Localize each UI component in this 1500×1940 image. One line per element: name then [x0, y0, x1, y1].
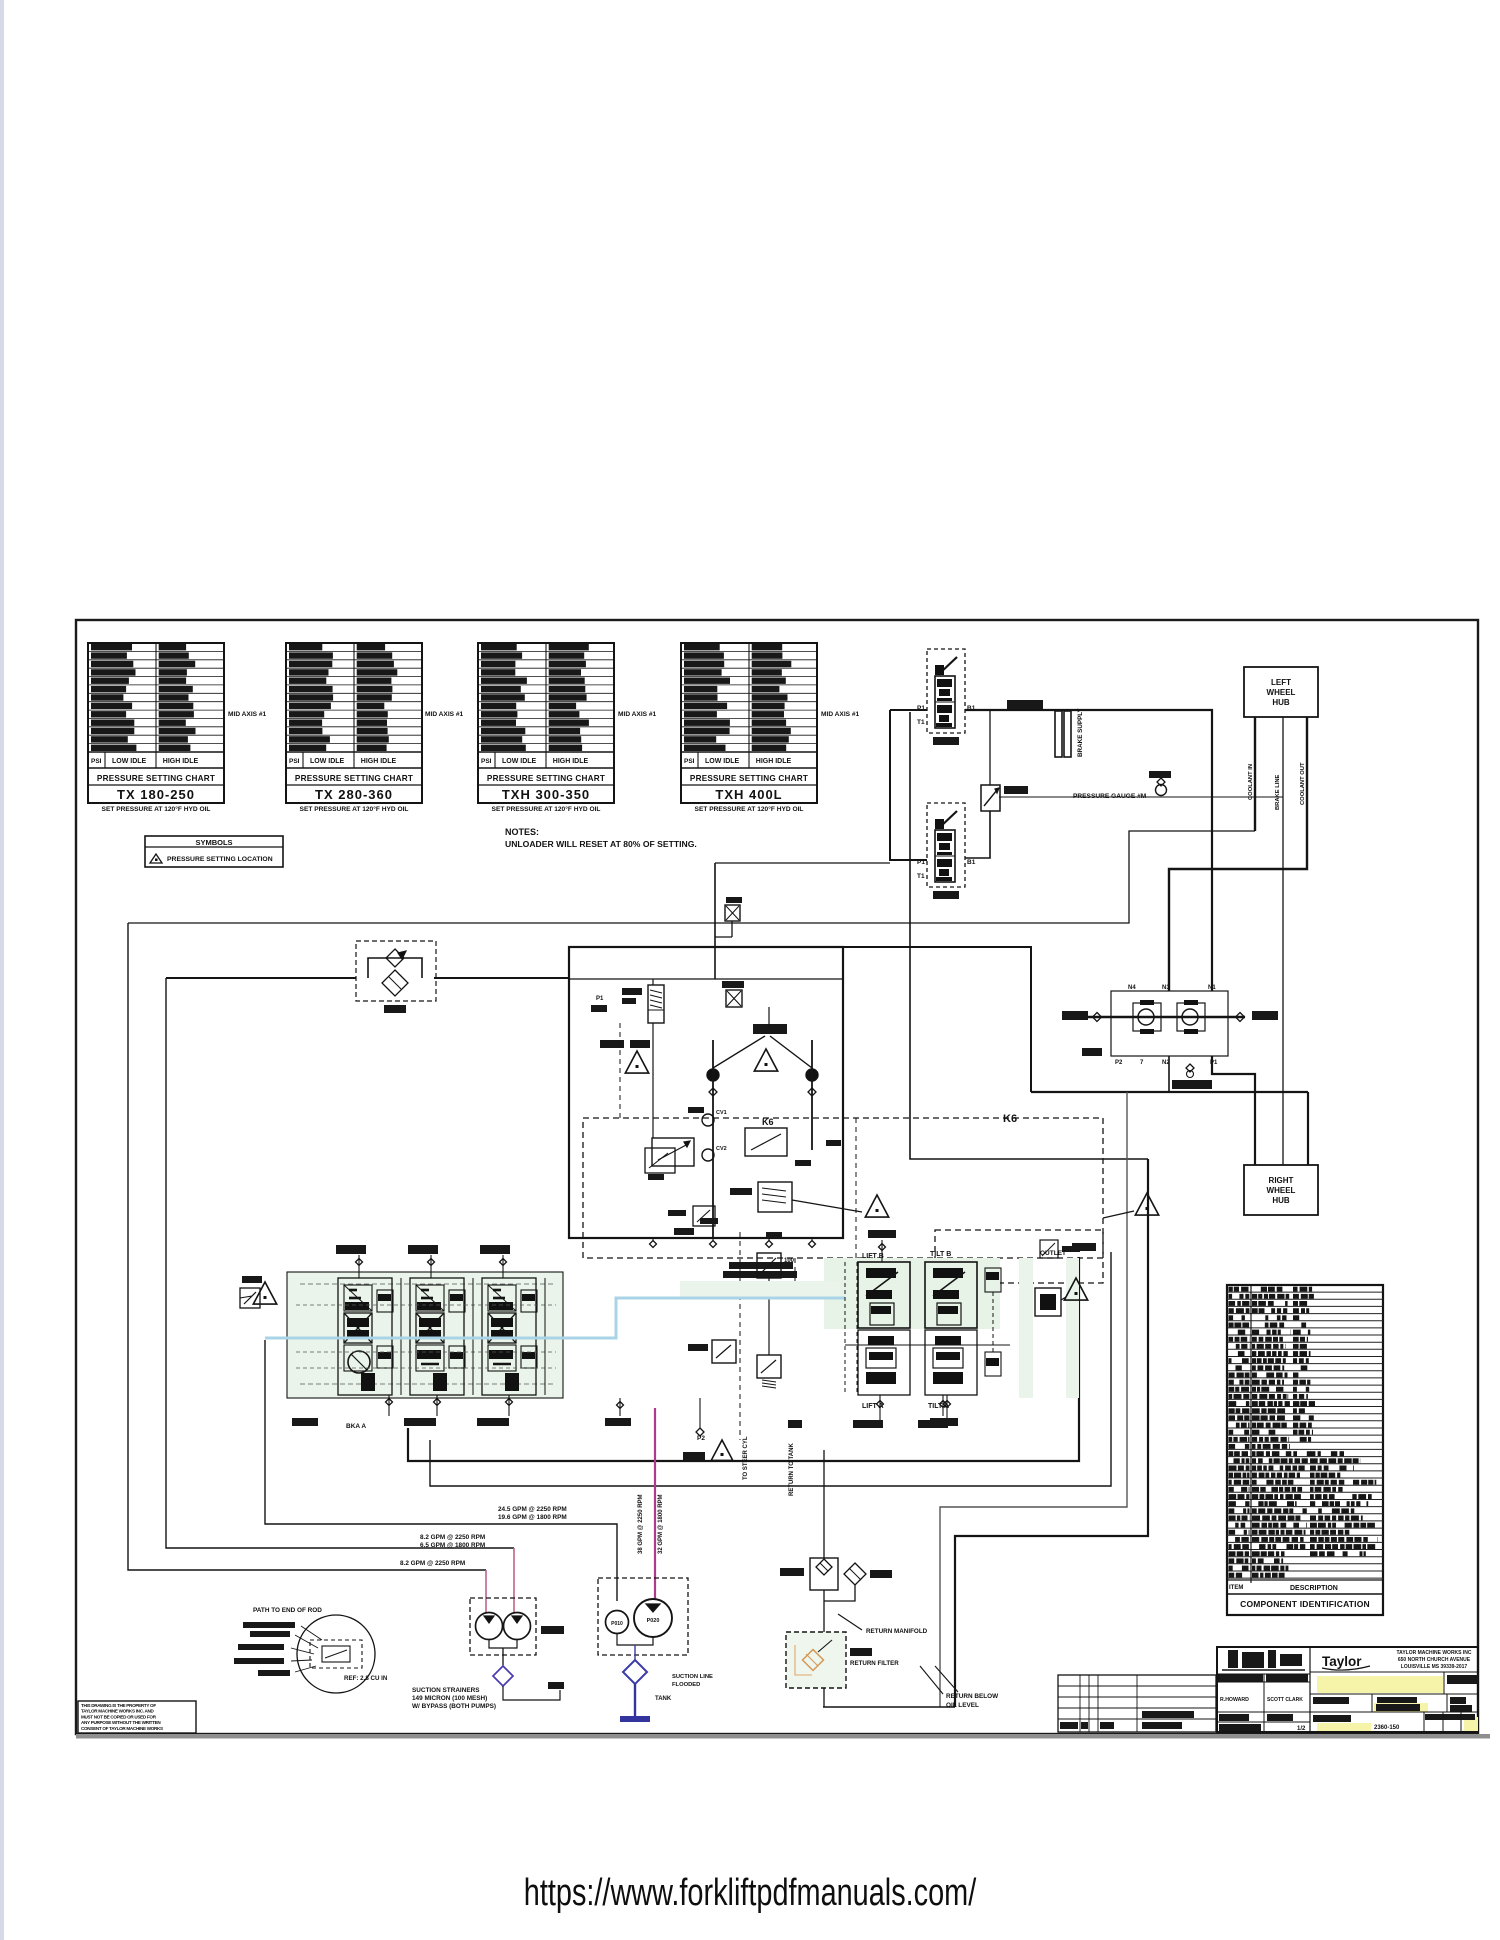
pressure setting chart TXH 300-350 frame	[478, 643, 614, 803]
bottom scan bar	[76, 1734, 1490, 1739]
svg-text:T1: T1	[917, 719, 925, 726]
svg-text:8.2 GPM @ 2250 RPM: 8.2 GPM @ 2250 RPM	[400, 1560, 465, 1567]
svg-text:LOW IDLE: LOW IDLE	[310, 758, 345, 765]
svg-text:B1: B1	[967, 859, 976, 866]
svg-text:PRESSURE SETTING CHART: PRESSURE SETTING CHART	[487, 774, 605, 783]
wire right side loop A	[408, 1257, 1079, 1461]
steer pump circle 1	[476, 1613, 503, 1640]
left bank bottom stems	[388, 1395, 390, 1416]
svg-text:PRESSURE SETTING CHART: PRESSURE SETTING CHART	[97, 774, 215, 783]
main pump circle small	[606, 1611, 629, 1634]
svg-text:HIGH IDLE: HIGH IDLE	[553, 758, 589, 765]
wire left hub coolant out	[1169, 717, 1307, 991]
relief spring symbol	[648, 985, 664, 1023]
solenoid valve SV2 lever	[939, 811, 957, 828]
svg-text:ITEM: ITEM	[1229, 1585, 1243, 1591]
svg-text:PSI: PSI	[684, 758, 695, 765]
main pump check diamond blue	[623, 1660, 647, 1684]
svg-text:650 NORTH CHURCH AVENUE: 650 NORTH CHURCH AVENUE	[1398, 1657, 1471, 1663]
flow divider right label	[1252, 1011, 1278, 1020]
svg-text:Taylor: Taylor	[1322, 1654, 1362, 1669]
svg-text:SET PRESSURE AT 120°F HYD OIL: SET PRESSURE AT 120°F HYD OIL	[102, 805, 211, 813]
right bank tint right strip	[1019, 1258, 1033, 1398]
main pump join	[617, 1634, 653, 1645]
solenoid valve SV1 body	[935, 676, 955, 728]
steering orbital circle	[297, 1615, 375, 1693]
left page-edge scan shadow	[0, 0, 4, 1940]
svg-text:1/2: 1/2	[1297, 1726, 1306, 1732]
pump flow tag	[683, 1452, 705, 1460]
mid spring lower-right	[762, 1380, 776, 1382]
svg-text:TO STEER CYL: TO STEER CYL	[743, 1436, 749, 1480]
pilot X box upper	[725, 905, 740, 921]
title block right grid	[1310, 1671, 1478, 1673]
left wheel hub box	[1244, 667, 1318, 717]
flow divider motor 1	[1133, 1003, 1161, 1031]
svg-text:https://www.forkliftpdfmanuals: https://www.forkliftpdfmanuals.com/	[524, 1871, 977, 1914]
manifold port diamonds	[709, 1088, 717, 1096]
svg-text:DESCRIPTION: DESCRIPTION	[1290, 1585, 1338, 1592]
wire pump1 suction pink 1	[485, 1570, 487, 1613]
svg-text:SET PRESSURE AT 120°F HYD OIL: SET PRESSURE AT 120°F HYD OIL	[695, 805, 804, 813]
chart TX 180-250 data rows	[88, 650, 224, 652]
pilot lines dashed box	[583, 1118, 1103, 1258]
component table description header	[1227, 1579, 1383, 1581]
right bank leader to triangle	[1061, 1297, 1066, 1300]
svg-text:WHEEL: WHEEL	[1267, 1186, 1296, 1195]
svg-text:38 GPM @ 2250 RPM: 38 GPM @ 2250 RPM	[638, 1494, 644, 1554]
wire gauge line	[999, 796, 1283, 798]
wire main pump magenta feed	[654, 1408, 656, 1600]
svg-text:MID AXIS #1: MID AXIS #1	[618, 711, 657, 718]
pilot gauge circle right	[806, 1069, 818, 1081]
svg-text:RETURN BELOW: RETURN BELOW	[946, 1693, 999, 1700]
pilot check tag	[1004, 786, 1028, 794]
right pressure-set triangle	[865, 1195, 888, 1217]
valve section LIFT spool stems	[879, 1395, 881, 1420]
return filter element	[803, 1650, 824, 1671]
svg-text:PRESSURE SETTING CHART: PRESSURE SETTING CHART	[690, 774, 808, 783]
inlet filter tag	[384, 1005, 406, 1013]
svg-text:THIS DRAWING IS THE PROPERTY O: THIS DRAWING IS THE PROPERTY OF	[81, 1703, 156, 1708]
svg-text:W/ BYPASS (BOTH PUMPS): W/ BYPASS (BOTH PUMPS)	[412, 1703, 496, 1710]
shuttle triangle	[754, 1049, 777, 1071]
solenoid valve SV1 envelope	[927, 649, 965, 733]
wire manifold top to brake leg	[843, 947, 1031, 1092]
left bank port tag	[242, 1276, 262, 1283]
chart TX 180-250 title rows	[88, 767, 224, 769]
manifold left inner valve	[645, 1148, 675, 1173]
svg-text:SCOTT CLARK: SCOTT CLARK	[1267, 1697, 1303, 1703]
svg-text:SUCTION STRAINERS: SUCTION STRAINERS	[412, 1687, 480, 1694]
chart TXH 300-350 data rows	[478, 650, 614, 652]
title bottom row	[1313, 1715, 1351, 1722]
wire right side loop D	[955, 1159, 1148, 1707]
wire left hub brake line	[1282, 717, 1284, 1165]
right bank inlet tag	[1072, 1243, 1096, 1251]
title block header band	[1218, 1674, 1263, 1682]
left bank inter-section rules	[400, 1278, 402, 1395]
svg-text:BRAKE LINE: BRAKE LINE	[1275, 774, 1281, 810]
flow divider drain tag	[1172, 1080, 1212, 1089]
chart TXH 400L header row	[681, 751, 817, 753]
right bank mid rail	[845, 1344, 1010, 1346]
svg-text:TILT B: TILT B	[930, 1251, 951, 1258]
svg-text:2360-150: 2360-150	[1374, 1725, 1400, 1731]
steer pump circle 2	[504, 1613, 531, 1640]
left valve bank tint	[287, 1272, 563, 1398]
manifold bottom tag	[674, 1228, 694, 1235]
title block main frame	[1217, 1647, 1478, 1732]
manifold inner dashed riser	[855, 1118, 857, 1258]
svg-text:CONSENT OF TAYLOR MACHINE WORK: CONSENT OF TAYLOR MACHINE WORKS	[81, 1726, 163, 1731]
central manifold box	[569, 947, 843, 1238]
pilot gauge circle left	[707, 1069, 719, 1081]
manifold inner top line	[569, 978, 843, 980]
wire main inlet horizontal	[166, 977, 356, 979]
svg-text:SET PRESSURE AT 120°F HYD OIL: SET PRESSURE AT 120°F HYD OIL	[300, 805, 409, 813]
main pump envelope	[598, 1578, 688, 1655]
svg-text:COOLANT OUT: COOLANT OUT	[1300, 762, 1306, 805]
chart TXH 400L data rows	[681, 650, 817, 652]
steer pump drain	[503, 1686, 560, 1700]
svg-text:6.5 GPM @ 1800 RPM: 6.5 GPM @ 1800 RPM	[420, 1542, 485, 1549]
pressure gauge symbol	[1156, 785, 1167, 796]
wire divider P2 drop	[1168, 1056, 1170, 1092]
inlet check valve	[368, 958, 422, 978]
steering leader lines	[301, 1626, 322, 1640]
right bank top stems	[881, 1240, 883, 1262]
steer pump tag	[541, 1626, 564, 1634]
steer pump check diamond blue	[493, 1666, 513, 1686]
brake accumulator component	[1055, 711, 1062, 757]
chart TX 280-360 title rows	[286, 767, 422, 769]
svg-text:100: 100	[784, 1258, 795, 1264]
svg-text:TX 280-360: TX 280-360	[315, 787, 393, 802]
valve section TILT spool	[925, 1262, 977, 1328]
return line small filter	[810, 1558, 838, 1590]
tank symbol	[620, 1716, 650, 1722]
manifold stub wires	[652, 1023, 654, 1138]
left bank outlet label	[605, 1418, 631, 1426]
svg-text:FLOODED: FLOODED	[672, 1682, 700, 1688]
revision table	[1058, 1675, 1216, 1732]
svg-text:HUB: HUB	[1272, 698, 1290, 707]
svg-text:PSI: PSI	[91, 758, 102, 765]
svg-text:HIGH IDLE: HIGH IDLE	[163, 758, 199, 765]
chart TXH 300-350 header row	[478, 751, 614, 753]
left bank bottom tags	[292, 1418, 318, 1426]
svg-text:K6: K6	[1003, 1113, 1017, 1125]
wire manifold pilot drop	[715, 862, 890, 864]
svg-text:REF: 2.8 CU IN: REF: 2.8 CU IN	[344, 1675, 388, 1682]
svg-text:CV1: CV1	[716, 1110, 727, 1116]
solenoid valve SV1 tag	[933, 737, 959, 745]
shuttle vee lines	[713, 1036, 765, 1068]
right bank pressure-set triangle	[1064, 1278, 1087, 1300]
svg-text:OIL LEVEL: OIL LEVEL	[946, 1702, 979, 1709]
chart TX 280-360 header row	[286, 751, 422, 753]
svg-text:WHEEL: WHEEL	[1267, 688, 1296, 697]
svg-text:RIGHT: RIGHT	[1269, 1176, 1294, 1185]
svg-text:RETURN TO TANK: RETURN TO TANK	[789, 1443, 795, 1496]
svg-text:LOW IDLE: LOW IDLE	[502, 758, 537, 765]
right bank tint lift band	[680, 1281, 840, 1299]
mid check valve lower-left	[712, 1340, 736, 1363]
svg-text:HIGH IDLE: HIGH IDLE	[361, 758, 397, 765]
left bank left port box	[240, 1288, 260, 1308]
svg-text:RETURN FILTER: RETURN FILTER	[850, 1660, 899, 1667]
pressure setting chart TX 280-360 frame	[286, 643, 422, 803]
left bank extra dashed rails	[296, 1304, 556, 1306]
yellow cell main	[1317, 1676, 1443, 1693]
svg-text:24.5 GPM @ 2250 RPM: 24.5 GPM @ 2250 RPM	[498, 1506, 567, 1513]
svg-text:P2: P2	[697, 1435, 705, 1442]
right wheel hub box	[1244, 1165, 1318, 1215]
manifold small tag left	[591, 1005, 607, 1012]
svg-text:MID AXIS #1: MID AXIS #1	[821, 711, 860, 718]
flow divider bottom-left label	[1082, 1048, 1102, 1056]
valve section spool 2 (left bank) stems	[430, 1255, 432, 1278]
anti-spin pilot label	[729, 1262, 793, 1269]
solenoid valve SV1 lever	[939, 657, 957, 674]
pump flow triangle	[711, 1440, 733, 1460]
flow divider drain gauge	[1186, 1064, 1194, 1072]
left bank top tags	[336, 1245, 366, 1254]
revision table texts	[1060, 1722, 1078, 1729]
mid valve stem	[768, 1278, 770, 1355]
manifold lower subvalve	[758, 1182, 792, 1212]
right dashed box contents	[1040, 1240, 1058, 1258]
wire sv P1 riser	[890, 710, 927, 860]
wire bottom return run	[823, 1706, 955, 1708]
outer border frame	[76, 620, 1478, 1734]
relief spring tag	[622, 988, 642, 995]
wire return drop	[823, 1450, 825, 1558]
right bank outlet component	[1035, 1288, 1061, 1316]
component table item column rule	[1250, 1285, 1252, 1583]
valve section spool 3 (left bank) stems	[502, 1255, 504, 1278]
svg-text:149 MICRON (100 MESH): 149 MICRON (100 MESH)	[412, 1695, 487, 1702]
manifold bottom port diamonds	[650, 1241, 657, 1248]
component table title	[1227, 1593, 1383, 1595]
title row 2 labels	[1313, 1697, 1349, 1704]
k6 zone pressure-set triangle	[1135, 1193, 1158, 1215]
mid lower-left tag	[688, 1344, 708, 1351]
wire divider P1 drop to right hub feed	[1212, 1056, 1255, 1092]
wire pump1 suction pink 2	[513, 1548, 515, 1613]
manifold check circles	[702, 1114, 714, 1126]
svg-text:R.HOWARD: R.HOWARD	[1220, 1697, 1249, 1703]
svg-text:RETURN MANIFOLD: RETURN MANIFOLD	[866, 1628, 928, 1635]
return check tag	[870, 1570, 892, 1578]
solenoid valve SV2 body	[935, 830, 955, 882]
svg-text:TAYLOR MACHINE WORKS INC: TAYLOR MACHINE WORKS INC	[1397, 1650, 1472, 1656]
svg-text:TAYLOR MACHINE WORKS INC. AND: TAYLOR MACHINE WORKS INC. AND	[81, 1709, 155, 1714]
wire left drop 3	[265, 1340, 617, 1601]
valve section spool 1 (left bank)	[338, 1278, 392, 1395]
chart TX 180-250 header row	[88, 751, 224, 753]
inlet filter diamond	[382, 970, 408, 996]
svg-text:ANY PURPOSE WITHOUT THE WRITTE: ANY PURPOSE WITHOUT THE WRITTEN	[81, 1720, 161, 1725]
svg-text:TXH 400L: TXH 400L	[715, 787, 782, 802]
svg-text:BRAKE SUPPLY: BRAKE SUPPLY	[1077, 707, 1084, 757]
solenoid X box tag	[722, 981, 744, 988]
svg-text:NOTES:: NOTES:	[505, 827, 539, 837]
svg-text:N4: N4	[1128, 985, 1136, 991]
bottom-left note box	[78, 1701, 196, 1733]
manifold relief subvalve 2	[745, 1128, 787, 1156]
valve section spool 1 (left bank) stems	[358, 1255, 360, 1278]
svg-text:TX 180-250: TX 180-250	[117, 787, 195, 802]
svg-text:PSI: PSI	[289, 758, 300, 765]
manifold extra tags	[688, 1107, 704, 1113]
svg-text:T1: T1	[917, 873, 925, 880]
wire right side loop B	[430, 1252, 1111, 1486]
pilot operated check box	[981, 785, 1000, 811]
svg-text:HUB: HUB	[1272, 1196, 1290, 1205]
svg-text:MID AXIS #1: MID AXIS #1	[228, 711, 267, 718]
manifold left triangle	[625, 1051, 648, 1073]
right bank tint upper	[824, 1258, 1000, 1329]
main pump tank drop navy	[634, 1684, 636, 1716]
svg-text:PRESSURE SETTING LOCATION: PRESSURE SETTING LOCATION	[167, 856, 273, 863]
svg-text:P2: P2	[1115, 1060, 1123, 1066]
svg-text:CV2: CV2	[716, 1146, 727, 1152]
flow divider left label	[1062, 1011, 1088, 1020]
svg-text:LOUISVILLE MS 39339-2017: LOUISVILLE MS 39339-2017	[1401, 1664, 1468, 1670]
right bank compensator column	[985, 1268, 1001, 1292]
svg-text:P020: P020	[647, 1618, 660, 1624]
svg-text:P010: P010	[611, 1621, 623, 1627]
mid port diamonds	[696, 1428, 704, 1436]
wire right hub feed horizontal	[1031, 1091, 1308, 1093]
brakes label	[1007, 700, 1043, 711]
valve section spool 3 (left bank)	[482, 1278, 536, 1395]
right bank bottom tags	[853, 1420, 883, 1428]
manifold relief subvalve 1	[652, 1138, 694, 1166]
inlet check filter envelope	[356, 941, 436, 1001]
left bank inner dashed rails	[300, 1283, 556, 1285]
pilot dashed box right	[935, 1230, 1103, 1283]
shuttle tag SHUT	[753, 1024, 787, 1034]
return check diamond	[844, 1563, 866, 1585]
flow divider box	[1111, 991, 1228, 1056]
wire SV1 outlet to divider	[965, 710, 1212, 991]
pressure setting chart TX 180-250 frame	[88, 643, 224, 803]
svg-text:MID AXIS #1: MID AXIS #1	[425, 711, 464, 718]
svg-text:SET PRESSURE AT 120°F HYD OIL: SET PRESSURE AT 120°F HYD OIL	[492, 805, 601, 813]
manifold lower-left small valve	[693, 1206, 715, 1226]
component identification table rows	[1227, 1291, 1383, 1293]
title block logo cell	[1309, 1647, 1311, 1732]
component identification table frame	[1227, 1285, 1383, 1615]
steer pump envelope	[470, 1598, 536, 1655]
right bank lift drop diamond	[942, 1395, 944, 1416]
chart TX 280-360 data rows	[286, 650, 422, 652]
svg-text:LIFT A: LIFT A	[862, 1403, 884, 1410]
svg-text:19.6 GPM @ 1800 RPM: 19.6 GPM @ 1800 RPM	[498, 1514, 567, 1521]
svg-text:LOW IDLE: LOW IDLE	[112, 758, 147, 765]
chart TXH 300-350 title rows	[478, 767, 614, 769]
yellow cell small	[1374, 1703, 1428, 1712]
return filter envelope	[786, 1632, 846, 1688]
wire long top run to left hub	[128, 831, 1255, 923]
return filter left tag	[780, 1568, 804, 1576]
main pump circle large	[634, 1599, 672, 1637]
wire left drop 2	[166, 978, 514, 1548]
manifold center riser	[712, 1040, 714, 1238]
flow divider right check diamond	[1236, 1013, 1245, 1022]
svg-text:PRESSURE SETTING CHART: PRESSURE SETTING CHART	[295, 774, 413, 783]
symbols legend triangle	[150, 854, 162, 863]
flow divider left check diamond	[1093, 1013, 1102, 1022]
svg-text:BKA A: BKA A	[346, 1423, 366, 1430]
flow divider motor 2	[1177, 1003, 1205, 1031]
manifold left triangle tags	[600, 1040, 624, 1048]
return filter tag	[850, 1648, 872, 1656]
svg-text:LEFT: LEFT	[1271, 678, 1291, 687]
svg-text:PSI: PSI	[481, 758, 492, 765]
svg-text:COOLANT IN: COOLANT IN	[1248, 764, 1254, 800]
steer pump join	[489, 1640, 517, 1648]
solenoid X box	[726, 990, 742, 1007]
svg-text:PATH TO END OF ROD: PATH TO END OF ROD	[253, 1607, 322, 1614]
solenoid valve SV2 tag	[933, 891, 959, 899]
mid dashed risers	[739, 1232, 741, 1440]
svg-text:P1: P1	[596, 996, 604, 1002]
left bank inlet triangle	[253, 1282, 276, 1304]
svg-text:HIGH IDLE: HIGH IDLE	[756, 758, 792, 765]
oil cooler blue line	[265, 1298, 845, 1338]
steering orbital inner box	[310, 1640, 362, 1668]
svg-text:SUCTION LINE: SUCTION LINE	[672, 1674, 713, 1680]
valve section LIFT spool	[858, 1262, 910, 1328]
svg-text:LIFT B: LIFT B	[862, 1253, 884, 1260]
solenoid valve SV2 envelope	[927, 803, 965, 887]
valve section TILT spool stems	[946, 1395, 948, 1420]
wire long center riser	[910, 712, 1148, 1159]
wire left hub coolant in drop	[1254, 717, 1256, 831]
svg-text:32 GPM @ 1800 RPM: 32 GPM @ 1800 RPM	[658, 1494, 664, 1554]
mid check valve upper	[757, 1253, 781, 1278]
pressure gauge tag	[1149, 771, 1171, 778]
wire right hub drops	[1254, 1092, 1256, 1165]
svg-text:LOW IDLE: LOW IDLE	[705, 758, 740, 765]
wire left drop 1	[128, 923, 486, 1570]
svg-text:MUST NOT BE COPIED OR USED FOR: MUST NOT BE COPIED OR USED FOR	[81, 1714, 157, 1719]
svg-text:TXH 300-350: TXH 300-350	[502, 787, 590, 802]
valve section spool 2 (left bank)	[410, 1278, 464, 1395]
wire sv2 outlet drop	[965, 811, 990, 858]
svg-text:OUTLET: OUTLET	[1040, 1250, 1066, 1257]
left valve bank frame	[287, 1272, 563, 1398]
flow divider through-shaft wire	[1087, 1016, 1245, 1018]
svg-text:8.2 GPM @ 2250 RPM: 8.2 GPM @ 2250 RPM	[420, 1534, 485, 1541]
return filter leader	[818, 1640, 832, 1652]
manifold lower subvalve tag	[730, 1188, 752, 1195]
svg-text:TANK: TANK	[655, 1696, 672, 1702]
manifold leader to right triangle	[792, 1200, 862, 1212]
svg-text:SYMBOLS: SYMBOLS	[195, 838, 232, 847]
svg-text:UNLOADER WILL RESET AT 80% OF: UNLOADER WILL RESET AT 80% OF SETTING.	[505, 839, 697, 849]
svg-text:COMPONENT IDENTIFICATION: COMPONENT IDENTIFICATION	[1240, 1599, 1370, 1609]
chart TXH 400L title rows	[681, 767, 817, 769]
mid check valve lower-right	[757, 1355, 781, 1378]
pressure setting chart TXH 400L frame	[681, 643, 817, 803]
wire right side loop C	[940, 1092, 1127, 1707]
symbols legend box	[145, 836, 283, 867]
